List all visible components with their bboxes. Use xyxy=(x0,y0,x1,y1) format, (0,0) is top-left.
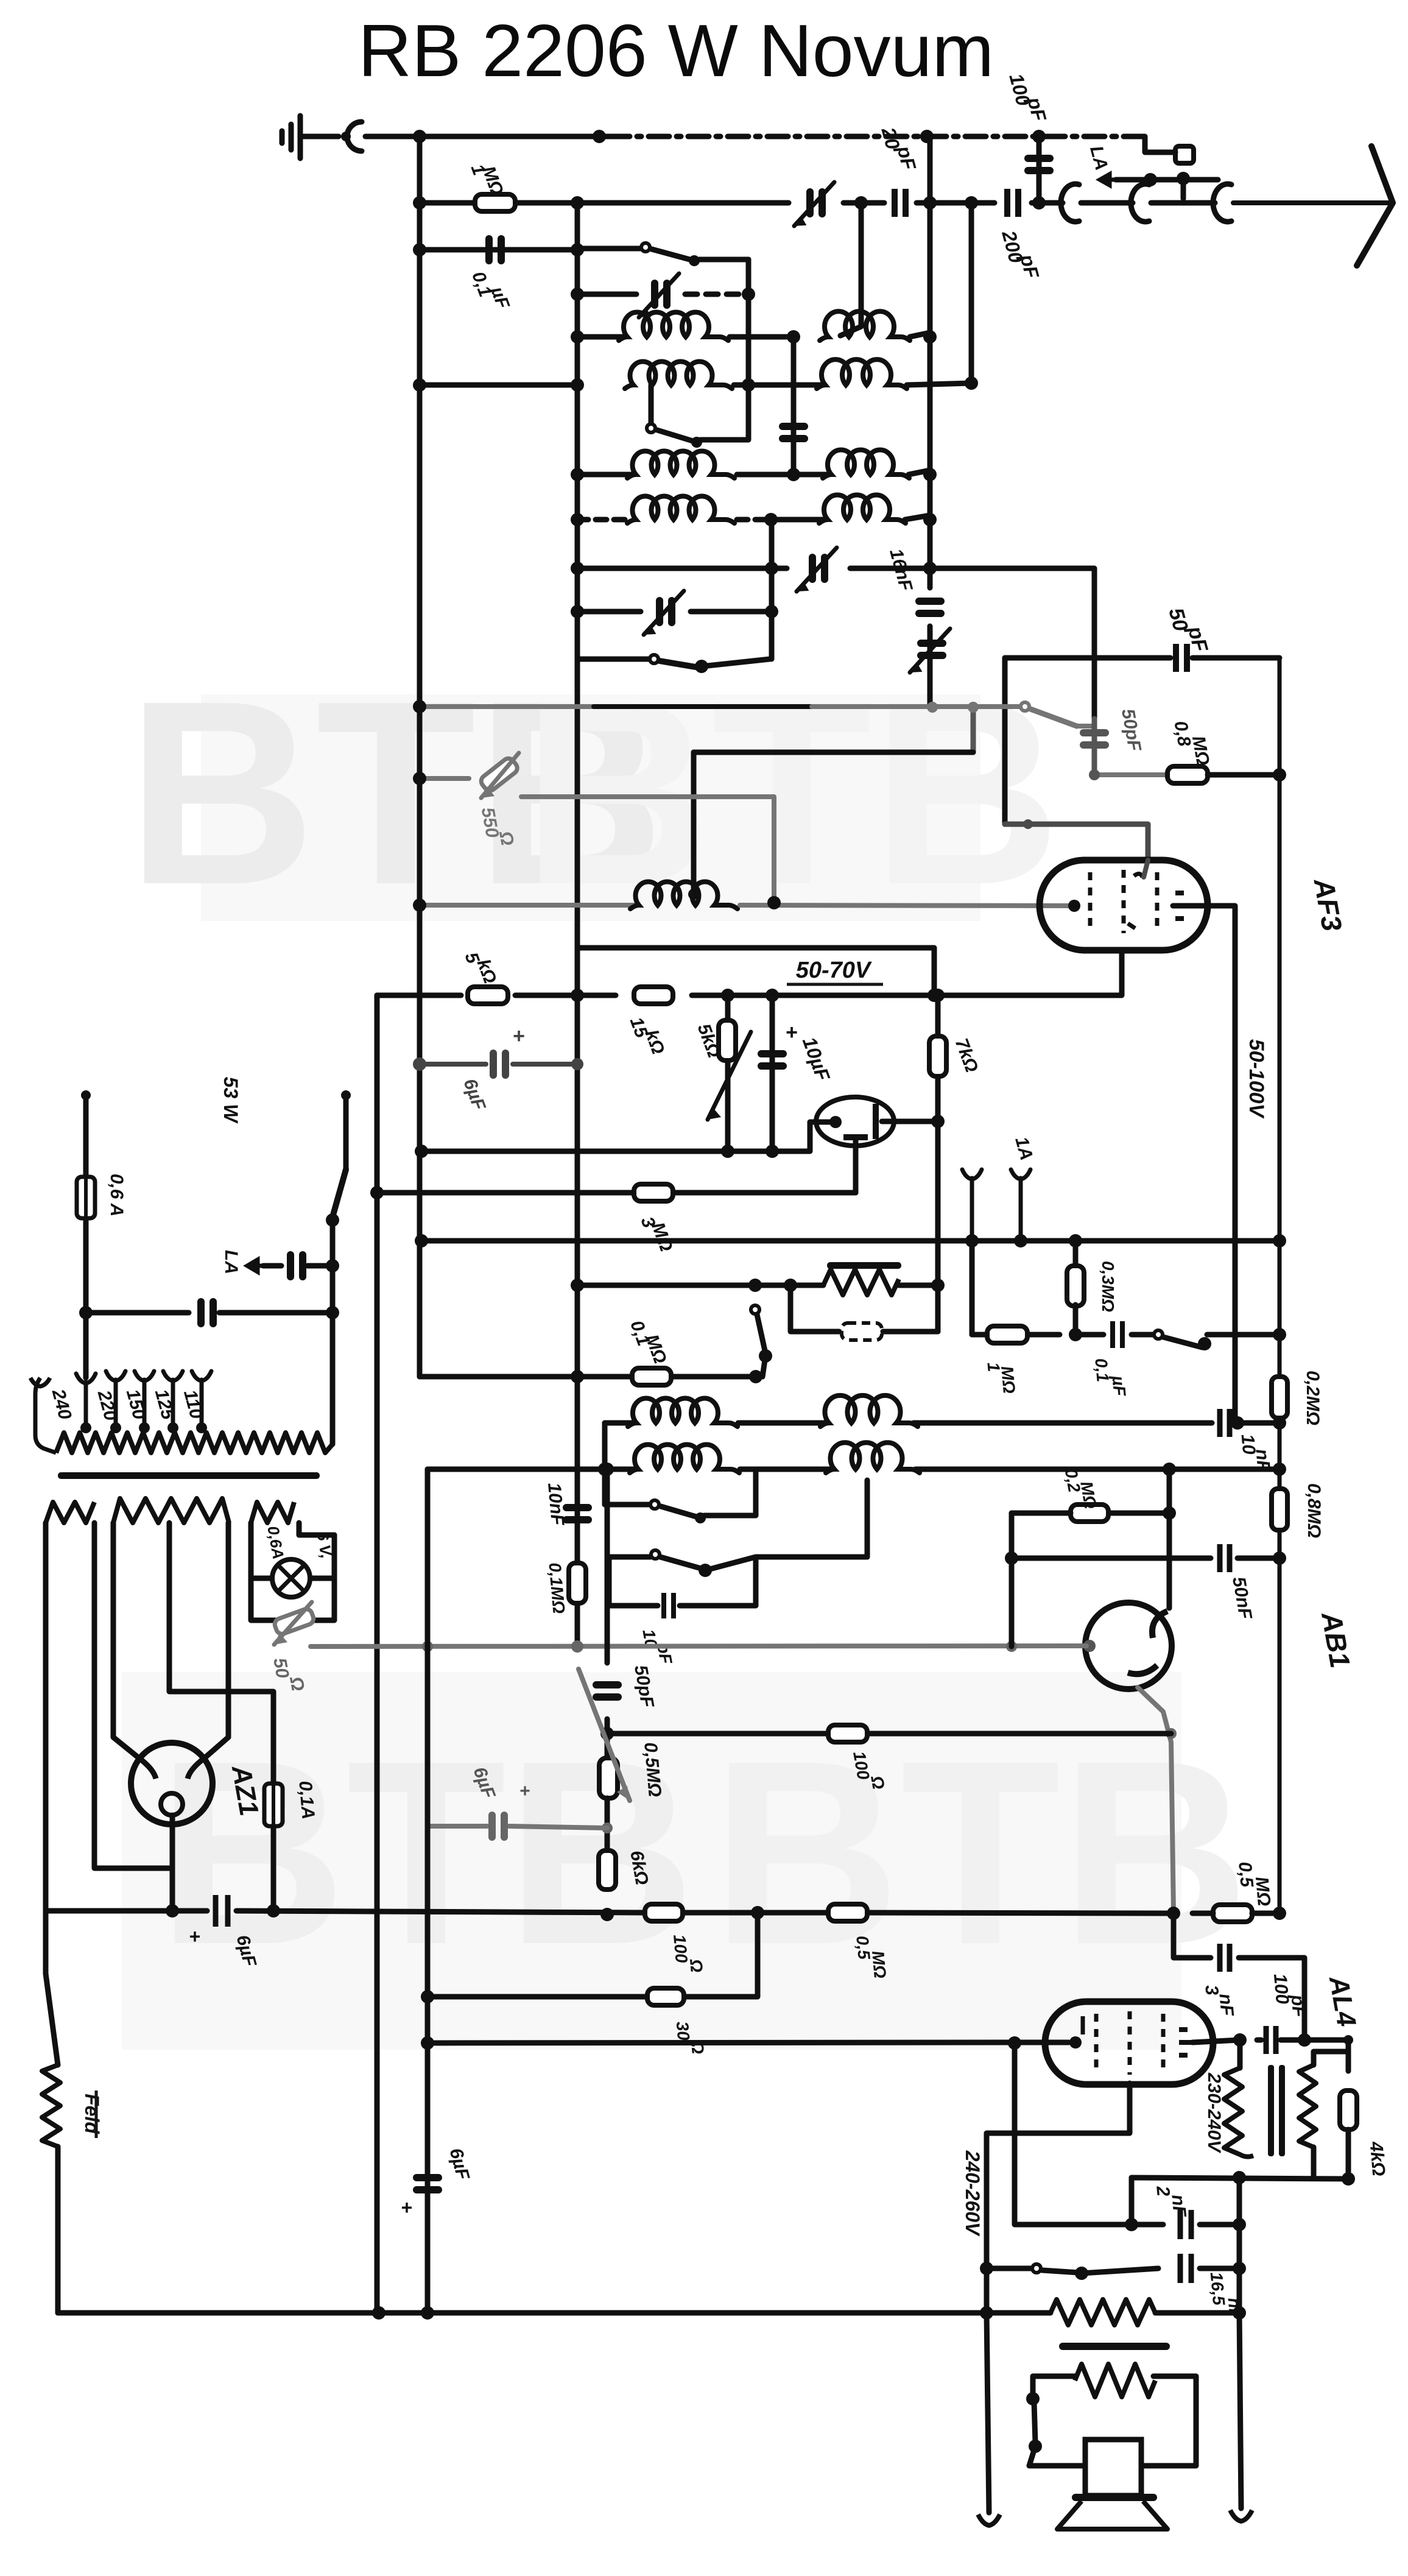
wire coil to AF3 gray xyxy=(740,905,1069,906)
capacitor 0.1uF AVC xyxy=(1113,1321,1122,1348)
wire y1890 xyxy=(421,1122,829,1151)
capacitor 100pF xyxy=(1037,136,1042,203)
capacitor LA xyxy=(287,1251,294,1280)
resistor 4kOhm xyxy=(1346,2040,1351,2071)
wire x1414 drop xyxy=(840,203,861,336)
coil row C left xyxy=(577,472,631,478)
wire x997 column xyxy=(605,1469,610,1663)
wire screen bracket 50-70V xyxy=(577,948,934,995)
wire AB1 cathode gray xyxy=(311,1646,1086,1646)
capacitor 20pF xyxy=(895,189,906,217)
wire AL4 plate xyxy=(1192,2040,1240,2042)
capacitor 50pF x997 xyxy=(593,1681,622,1689)
switch SW1 top xyxy=(577,246,641,252)
resistor 5kOhm xyxy=(468,987,508,1004)
trimmer T3 xyxy=(917,640,946,647)
tube AZ1 xyxy=(131,1743,213,1824)
wire speaker right terminal xyxy=(1239,2313,1241,2508)
speaker hum coil xyxy=(1075,2364,1155,2397)
wire AB1 grid lead xyxy=(1167,1513,1172,1608)
node y333 junctions xyxy=(413,196,426,210)
wire antenna shaft xyxy=(1045,200,1063,206)
svg-text:BTB: BTB xyxy=(523,647,1061,939)
capacitor 3nF xyxy=(1220,1944,1230,1972)
svg-text:50: 50 xyxy=(269,1656,292,1680)
tap elbow 240 xyxy=(35,1378,56,1453)
wire LA line xyxy=(1100,174,1116,185)
wire speaker left terminal xyxy=(987,2313,989,2513)
terminal mains L xyxy=(81,1090,91,1100)
svg-text:nF: nF xyxy=(1215,1992,1237,2017)
wire y2558 50nF row xyxy=(1012,1556,1211,1561)
wire x1598 to y1235 xyxy=(971,707,976,752)
svg-text:RB 2206 W Novum: RB 2206 W Novum xyxy=(358,9,994,92)
capacitor 100pF AL4 xyxy=(1266,2026,1276,2054)
resistor 0.2MOhm AB1 grid xyxy=(1071,1505,1108,1522)
wire 30 Ohm row y3278 xyxy=(428,1994,647,2000)
resistor 0.3MOhm xyxy=(1073,1241,1079,1267)
wire x1595 vertical xyxy=(969,203,974,383)
wire bottom rail y3797 xyxy=(58,2310,1051,2316)
decorative watermark xyxy=(201,694,980,921)
transformer core xyxy=(58,1472,320,1479)
trimmer T4 row xyxy=(577,609,641,615)
potentiometer volume with bar xyxy=(577,1283,823,1288)
capacitor 6uF gray cathode xyxy=(488,1812,496,1841)
resistor 0.5MOhm rail xyxy=(828,1904,867,1921)
wire AL4 grid row y3353 xyxy=(428,2042,1011,2043)
wire pot to x1271 gray xyxy=(521,797,774,903)
wire ground to jack xyxy=(300,134,339,139)
svg-text:+: + xyxy=(519,1781,530,1801)
resistor 1MOhm AVC xyxy=(987,1326,1027,1343)
wire row5 y2336 IF xyxy=(605,1420,632,1426)
wire y2155 with cap xyxy=(86,1310,189,1316)
terminal prong 1A left xyxy=(962,1170,982,1241)
svg-text:0,8MΩ: 0,8MΩ xyxy=(1304,1483,1324,1538)
trimmer capacitor antenna xyxy=(806,188,814,217)
capacitor 0.1uF input xyxy=(485,235,493,264)
svg-text:230-240V: 230-240V xyxy=(1204,2072,1224,2154)
speaker bar xyxy=(1072,2494,1157,2501)
wire main y1634 xyxy=(377,993,461,998)
speaker cone xyxy=(1057,2501,1167,2529)
capacitor mains xyxy=(197,1298,205,1327)
pickup terminal P xyxy=(1175,146,1194,163)
svg-text:pF: pF xyxy=(1287,1993,1309,2018)
wire gray 6uF row y2998 xyxy=(428,1824,487,1829)
capacitor 6uF gray (bus1 bypass) xyxy=(420,1062,486,1067)
wire y1958 grid return xyxy=(377,1190,856,1196)
speaker core bar xyxy=(1059,2343,1170,2350)
wire y1235 xyxy=(694,750,973,755)
svg-text:+: + xyxy=(401,2197,413,2218)
capacitor padder row C xyxy=(791,337,797,475)
svg-text:MΩ: MΩ xyxy=(998,1365,1019,1394)
pilot lamp box xyxy=(251,1523,272,1578)
terminal mains N xyxy=(341,1090,351,1100)
switch row6 b xyxy=(607,1557,612,1584)
wire top bus y224 xyxy=(365,134,609,139)
wire AF3 grid cap entry gray xyxy=(1144,860,1148,877)
bus2 vertical x948 xyxy=(575,203,580,1649)
coil row B right xyxy=(817,359,907,389)
fuse 0.6A xyxy=(77,1177,95,1218)
coil row D left (dashed feed) xyxy=(577,517,631,523)
tube triode (magic eye) xyxy=(816,1097,894,1146)
wire grid riser x1650 xyxy=(1002,658,1008,824)
wire fuse down xyxy=(83,1218,89,1378)
coil row6 right xyxy=(826,1442,920,1473)
capacitor 2nF xyxy=(1180,2210,1191,2239)
wire 3nF row xyxy=(1174,1913,1211,1958)
capacitor 10uF electrolytic xyxy=(770,995,775,1151)
wire x1229 vertical xyxy=(746,259,752,385)
potentiometer 5kOhm vertical xyxy=(725,995,731,1151)
resistor dashed (tone) xyxy=(790,1285,839,1332)
svg-text:240-260V: 240-260V xyxy=(962,2150,984,2237)
wire y2260 xyxy=(420,1374,762,1380)
tube AL4 xyxy=(1045,2002,1213,2084)
wire center tap to fuse 0.1A xyxy=(167,1523,172,1559)
potentiometer 50 Ohm gray xyxy=(273,1607,315,1636)
wire pickup step xyxy=(1145,136,1175,152)
wire prong to y2191 xyxy=(970,1241,975,1335)
speaker wiring loop xyxy=(1033,2376,1075,2395)
capacitor 10nF anode xyxy=(1220,1409,1230,1437)
wire triode grid down xyxy=(853,1140,859,1193)
resistor 1MOhm antenna xyxy=(417,200,423,206)
switch wave change gray xyxy=(1021,702,1029,711)
capacitor 16nF xyxy=(915,598,945,605)
capacitor 6uF on x702 xyxy=(413,2174,442,2181)
pilot lamp xyxy=(272,1559,310,1597)
wire ground rail y3137 xyxy=(46,1908,207,1914)
wire x1858 riser xyxy=(1129,2178,1135,2225)
svg-text:MΩ: MΩ xyxy=(1251,1876,1274,1907)
transformer heater winding (rectifier) xyxy=(46,1502,94,1523)
wire 2nF row y3652 xyxy=(1015,2043,1163,2225)
wire switch down x546 xyxy=(330,1220,336,1444)
wire row6 y2412 xyxy=(428,1467,633,1472)
resistor 30 Ohm xyxy=(647,1988,684,2005)
wire cathode AL4 xyxy=(987,2083,1130,2313)
terminal LA mains xyxy=(247,1260,263,1272)
coil row B left xyxy=(571,378,584,392)
node top bus junctions xyxy=(413,130,426,143)
switch AVC xyxy=(1154,1330,1163,1339)
capacitor 200pF xyxy=(1007,189,1018,217)
wire row B y632 xyxy=(420,383,577,388)
ground symbol xyxy=(282,116,300,158)
bus1 vertical x689 xyxy=(417,136,423,1377)
wire field coil Feld xyxy=(46,1911,58,2065)
svg-text:30: 30 xyxy=(673,2020,694,2041)
svg-text:4kΩ: 4kΩ xyxy=(1365,2140,1389,2176)
svg-text:0,1A: 0,1A xyxy=(295,1780,318,1820)
resistor 100 Ohm AB1 xyxy=(828,1725,867,1742)
capacitor 6uF main filter xyxy=(216,1895,228,1927)
wire 100 Ohm row y2846 xyxy=(607,1731,828,1737)
svg-text:10nF: 10nF xyxy=(544,1482,568,1526)
transformer primary taps xyxy=(76,1374,96,1427)
speaker driver box xyxy=(1085,2440,1141,2496)
choke on bottom rail xyxy=(1051,2299,1155,2325)
svg-text:0,3MΩ: 0,3MΩ xyxy=(1099,1261,1118,1312)
node y1634 junctions xyxy=(571,989,584,1002)
wire y410 with cap xyxy=(420,247,577,253)
svg-text:µF: µF xyxy=(1108,1374,1129,1397)
wire rows left link xyxy=(602,1423,608,1469)
coil row5 right xyxy=(820,1396,918,1427)
resistor 0.5MOhm B+ xyxy=(1213,1905,1252,1922)
output transformer core xyxy=(1268,2065,1274,2156)
resistor 15kOhm xyxy=(634,987,673,1004)
output transformer primary 230-240V xyxy=(1237,2040,1243,2068)
coil row A left xyxy=(577,334,622,340)
wire HV right anode xyxy=(205,1523,228,1758)
wire HV left anode xyxy=(113,1523,139,1758)
coil row C right xyxy=(823,450,909,478)
svg-text:53 W: 53 W xyxy=(220,1077,242,1124)
wire x619 long vertical xyxy=(375,995,380,2313)
wire AZ1 cathode down xyxy=(170,1815,175,1911)
connector jack xyxy=(347,122,362,151)
terminal prong 1A right xyxy=(1011,1170,1030,1241)
resistor 6kOhm xyxy=(599,1851,616,1890)
wire AB1 anode down gray xyxy=(1138,1687,1174,1913)
wire x1139 into coil xyxy=(691,752,697,894)
transformer primary winding xyxy=(56,1433,333,1453)
capacitor 10pF xyxy=(609,1584,658,1606)
svg-text:50-70V: 50-70V xyxy=(796,958,872,983)
wire 0.2MOhm detour xyxy=(1110,1469,1169,1513)
transformer HV winding xyxy=(113,1498,229,1523)
svg-text:Ω: Ω xyxy=(686,1958,706,1974)
switch tone y3724 xyxy=(987,2266,1032,2271)
bus3 vertical x1527 xyxy=(928,136,933,588)
wire x702 vertical xyxy=(425,1469,431,1646)
potentiometer 550 Ohm gray xyxy=(420,776,469,781)
resistor 7kOhm xyxy=(935,995,941,1121)
wire heater leg left xyxy=(43,1523,49,1911)
resistor 100 Ohm rail xyxy=(645,1904,683,1921)
fuse 0.1A xyxy=(264,1784,283,1826)
switch SW2 below row B xyxy=(649,385,654,426)
svg-text:nF: nF xyxy=(1167,2193,1189,2218)
wire gray y1486 to AF3 xyxy=(420,903,634,908)
antenna coupling hooks xyxy=(1061,184,1079,222)
wire row6 tap x1424 xyxy=(865,1480,870,1557)
svg-text:+: + xyxy=(786,1021,798,1044)
output transformer secondary xyxy=(1299,2065,1316,2147)
trimmer T2 xyxy=(809,554,816,583)
wire pot feed x278 xyxy=(169,1559,273,1784)
svg-text:0,6 A: 0,6 A xyxy=(107,1174,127,1217)
capacitor 10nF bus2 xyxy=(563,1504,592,1511)
switch SW3 row xyxy=(577,657,649,662)
tube AF3 electrodes xyxy=(1090,870,1157,933)
coil row A right xyxy=(820,311,910,341)
switch mains xyxy=(333,1170,346,1217)
wire AVC gray y1160 xyxy=(420,704,594,709)
wire y2037 AVC bus xyxy=(421,1238,1280,1244)
resistor 0.1MOhm IF xyxy=(632,1368,671,1385)
capacitor 50pF AF3 xyxy=(1176,644,1187,672)
wire x1661 bias xyxy=(1009,1513,1015,1646)
wire y933 oscillator xyxy=(577,566,772,571)
wire grid top y1353 xyxy=(1005,824,1148,858)
grid capacitor 50pF gray xyxy=(1092,719,1097,775)
trimmer T1 xyxy=(577,292,636,297)
wire main antenna line y333 xyxy=(420,200,789,206)
wire fuse 0.1A down xyxy=(271,1826,276,1911)
transformer lamp winding xyxy=(251,1502,294,1523)
switch below volume xyxy=(751,1305,759,1314)
wire secondary bottom y3575 xyxy=(1132,2178,1348,2179)
svg-text:0,2MΩ: 0,2MΩ xyxy=(1303,1371,1323,1425)
resistor 0.2MOhm right bus xyxy=(1272,1377,1287,1418)
svg-text:+: + xyxy=(513,1025,525,1048)
svg-text:50-100V: 50-100V xyxy=(1245,1039,1268,1120)
wire y2191 AVC switch row xyxy=(972,1332,987,1338)
wire y1080 feedback 50pF xyxy=(1005,655,1170,661)
potentiometer 0.5MOhm regen xyxy=(605,1719,610,1758)
tube AB1 xyxy=(1085,1603,1172,1689)
antenna arrow xyxy=(1357,146,1393,266)
wire triode plate xyxy=(882,1119,938,1124)
capacitor 50nF xyxy=(1220,1544,1230,1572)
wire AF3 plate x2028 xyxy=(1173,906,1235,1423)
wire x1540 from triode xyxy=(935,1121,941,1332)
resistor 0.1MOhm bus2 xyxy=(569,1563,586,1603)
wire gray grid y1272 xyxy=(1094,772,1168,777)
svg-text:LA: LA xyxy=(221,1250,241,1274)
resistor 0.8MOhm right bus xyxy=(1272,1489,1287,1530)
coil AF3 input xyxy=(630,881,737,909)
tube AF3 xyxy=(1040,860,1208,950)
svg-text:+: + xyxy=(189,1925,201,1947)
coil row D right xyxy=(819,495,906,523)
wire heater leg right to cathode xyxy=(94,1523,172,1868)
svg-text:MΩ: MΩ xyxy=(868,1950,890,1979)
resistor 3MOhm xyxy=(634,1184,673,1201)
switch row6 a xyxy=(602,1469,608,1505)
capacitor 16.5nF xyxy=(1180,2254,1191,2283)
wire x2035 vertical xyxy=(1237,2178,1242,2313)
node transformer tap dots xyxy=(80,1422,91,1433)
wire x1267 block vertical xyxy=(769,520,775,659)
svg-text:Feld: Feld xyxy=(81,2094,103,2134)
resistor 0.8MOhm AF3 xyxy=(1167,766,1208,783)
right bus x2101 xyxy=(1278,658,1282,1913)
